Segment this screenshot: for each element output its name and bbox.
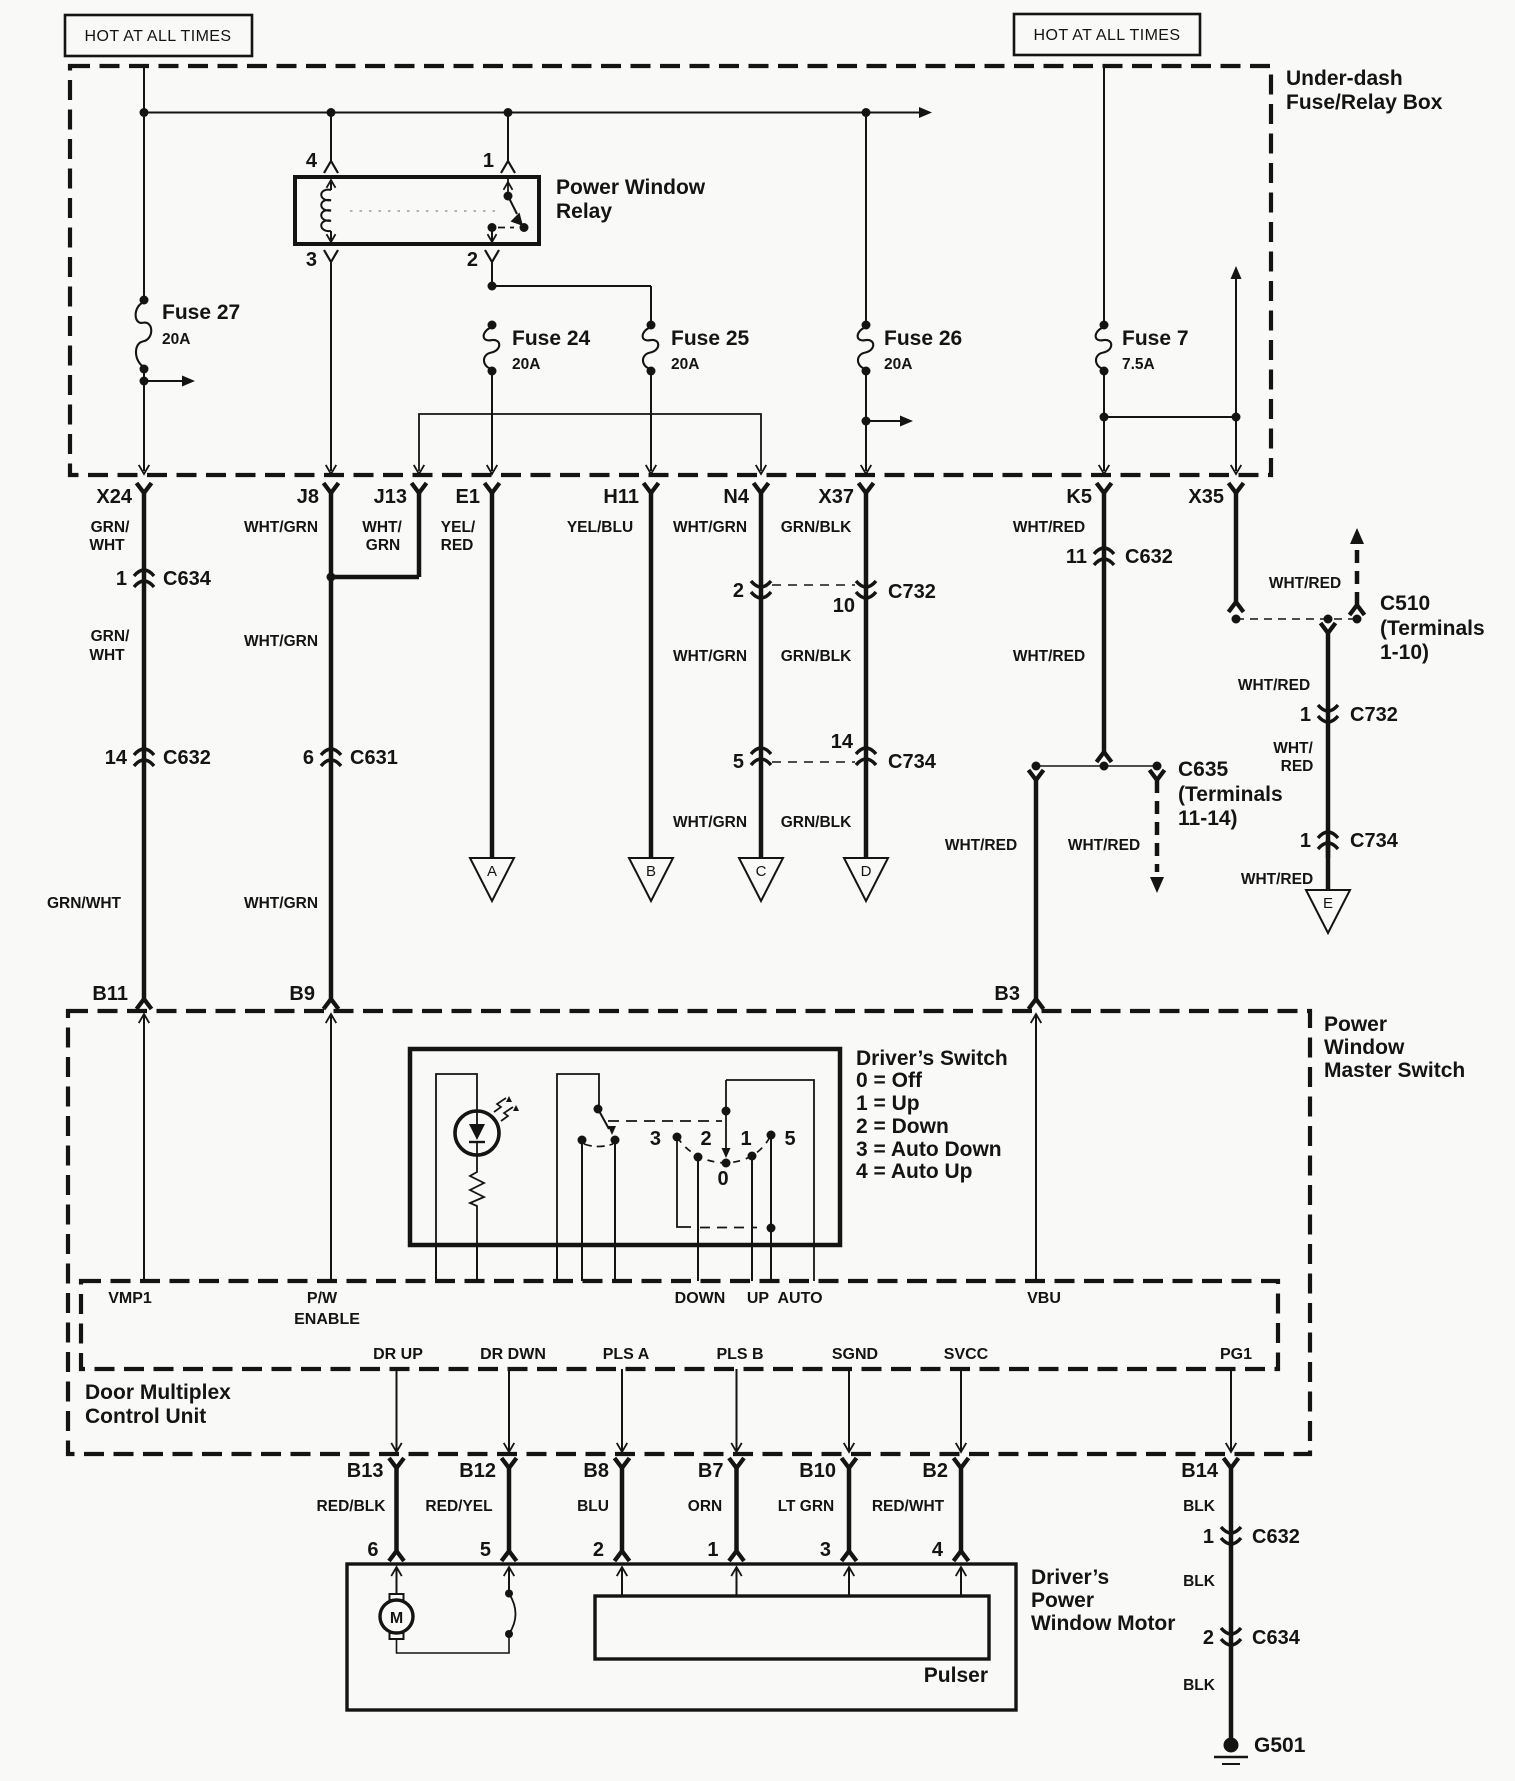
wire: pin 5 lead xyxy=(504,1567,515,1594)
label: motor pin 3 xyxy=(820,1539,831,1561)
svg-text:5: 5 xyxy=(480,1539,491,1561)
arrow: C635 continues down xyxy=(1150,877,1164,893)
svg-text:6: 6 xyxy=(303,747,314,769)
arrow into connector X24 xyxy=(139,465,150,474)
label: connector X24 xyxy=(96,486,132,508)
svg-text:B14: B14 xyxy=(1181,1460,1219,1482)
motor contact dots xyxy=(505,1590,513,1639)
label: SVCC xyxy=(944,1346,989,1363)
connector X24 (Y terminal) xyxy=(137,483,152,493)
svg-text:B7: B7 xyxy=(698,1460,724,1482)
junction: bus / fuse 26 xyxy=(862,108,871,117)
svg-text:Power: Power xyxy=(1031,1589,1094,1612)
svg-text:11: 11 xyxy=(1066,546,1087,568)
mechanical link (dashed) xyxy=(608,1120,722,1122)
svg-text:1: 1 xyxy=(1300,830,1311,852)
svg-text:GRN/WHT: GRN/WHT xyxy=(47,895,122,912)
svg-text:3: 3 xyxy=(820,1539,831,1561)
label: motor pin 2 xyxy=(593,1539,604,1561)
label: RED/BLK xyxy=(317,1498,387,1515)
label: G501 xyxy=(1254,1734,1306,1757)
arrow into connector J8 xyxy=(326,465,337,474)
motor pin 6 connector (inverted Y) xyxy=(389,1551,404,1561)
svg-text:1: 1 xyxy=(707,1539,718,1561)
arrow into connector X37 xyxy=(861,465,872,474)
label: connector N4 xyxy=(723,486,749,508)
svg-text:VMP1: VMP1 xyxy=(108,1290,152,1307)
wire: C510 stub (thick dashed, up) xyxy=(1355,548,1360,605)
label: Door Multiplex Control Unit xyxy=(85,1381,231,1428)
pin label 4 xyxy=(306,150,318,172)
connector C732 on branch (pin 1) xyxy=(1318,705,1338,722)
enable contact dots xyxy=(578,1136,620,1145)
svg-text:B12: B12 xyxy=(459,1460,496,1482)
connector B13 (Y terminal) xyxy=(389,1458,404,1468)
label: B3 xyxy=(994,983,1020,1005)
svg-text:WHT/RED: WHT/RED xyxy=(1238,677,1310,694)
svg-text:4: 4 xyxy=(306,150,318,172)
wire: C510 tie line (dotted) xyxy=(1236,618,1357,620)
svg-text:C734: C734 xyxy=(888,751,937,773)
connector J13 (Y terminal) xyxy=(412,483,427,493)
junction: C635 node xyxy=(1153,762,1162,771)
wire: enable switch loop xyxy=(557,1074,599,1245)
label: connector B8 xyxy=(583,1460,609,1482)
svg-text:WHT/GRN: WHT/GRN xyxy=(673,648,747,665)
motor pin 5 connector (inverted Y) xyxy=(502,1551,517,1561)
svg-text:2: 2 xyxy=(467,249,478,271)
svg-text:PLS A: PLS A xyxy=(603,1346,650,1363)
label: Fuse 24 xyxy=(512,327,591,350)
wire: X35 riser with arrow xyxy=(1231,266,1242,417)
LED symbol xyxy=(469,1111,485,1155)
label: connector B10 xyxy=(799,1460,836,1482)
label: 1 C734 (branch) xyxy=(1300,830,1399,852)
label: PLS B xyxy=(716,1346,763,1363)
svg-text:3 = Auto Down: 3 = Auto Down xyxy=(856,1138,1002,1161)
svg-text:0 = Off: 0 = Off xyxy=(856,1069,923,1092)
svg-text:SVCC: SVCC xyxy=(944,1346,989,1363)
wire GRN/WHT: X24 to B11 (thick) xyxy=(142,492,147,1000)
svg-text:Window Motor: Window Motor xyxy=(1031,1612,1175,1635)
svg-text:BLK: BLK xyxy=(1183,1498,1216,1515)
arrow: bus continues right xyxy=(919,107,932,118)
wire YEL/BLU: H11 to ground B (thick) xyxy=(649,492,654,858)
connector H11 (Y terminal) xyxy=(644,483,659,493)
label: 1 C632 (B14) xyxy=(1203,1526,1300,1548)
svg-text:2: 2 xyxy=(733,580,744,602)
svg-text:WHT/RED: WHT/RED xyxy=(1068,837,1140,854)
rocker actuator arrow xyxy=(722,1111,731,1158)
svg-text:RED/BLK: RED/BLK xyxy=(317,1498,387,1515)
connector X35 (Y terminal) xyxy=(1229,483,1244,493)
svg-text:14: 14 xyxy=(105,747,128,769)
label: Fuse 7 xyxy=(1122,327,1189,350)
label: GRN/ WHT (upper) xyxy=(89,519,130,554)
label: RED/YEL xyxy=(425,1498,492,1515)
rocker position 2 dot xyxy=(694,1153,703,1162)
svg-text:2: 2 xyxy=(700,1128,711,1150)
label: WHT/RED (K5 upper) xyxy=(1013,519,1085,536)
relay mechanical link (faint dotted) xyxy=(350,210,500,212)
connector triangle C xyxy=(739,858,783,901)
svg-text:ORN: ORN xyxy=(688,1498,722,1515)
label: Fuse 26 xyxy=(884,327,962,350)
wire: pulser lead pin 2 xyxy=(617,1567,628,1596)
junction: fuse 7 / X35 tie xyxy=(1100,413,1109,422)
label: Power Window Relay xyxy=(556,176,706,223)
label: WHT/ GRN (J13) xyxy=(362,519,402,554)
connector C634 in-line (pin 1) xyxy=(134,570,154,587)
wire: illumination drops xyxy=(436,1245,477,1281)
label: connector K5 xyxy=(1066,486,1092,508)
connector B9 (inverted Y) xyxy=(324,999,339,1009)
wire WHT/RED: B3 drop (thick) xyxy=(1034,780,1039,1000)
wire RED/YEL: B12 to motor pin 5 (thick) xyxy=(507,1467,512,1551)
connector N4 (Y terminal) xyxy=(754,483,769,493)
label: motor pin 5 xyxy=(480,1539,491,1561)
svg-text:C632: C632 xyxy=(1125,546,1173,568)
wire WHT/RED: X35 stub (thick) xyxy=(1234,492,1239,602)
label: LT GRN xyxy=(778,1498,835,1515)
label: C635 (Terminals 11-14) xyxy=(1178,758,1283,830)
label: connector B2 xyxy=(922,1460,948,1482)
connector B14 (Y terminal) xyxy=(1224,1458,1239,1468)
label: VMP1 xyxy=(108,1290,152,1307)
label: 1 C634 xyxy=(116,568,212,590)
label: B9 xyxy=(289,983,315,1005)
svg-text:5: 5 xyxy=(733,751,744,773)
svg-text:N4: N4 xyxy=(723,486,749,508)
svg-text:1: 1 xyxy=(116,568,127,590)
connector B3 branch (Y) xyxy=(1029,770,1044,780)
wire: motor return loop xyxy=(397,1636,510,1653)
relay contact: output terminal dot xyxy=(488,223,497,232)
label: WHT/RED (B3) xyxy=(945,837,1017,854)
junction: bus / X24 xyxy=(140,108,149,117)
arrow into connector K5 xyxy=(1099,465,1110,474)
wire: tie to X35 column xyxy=(1104,416,1236,418)
svg-text:H11: H11 xyxy=(603,486,639,508)
auto link (dashed) xyxy=(700,1227,757,1229)
label: GRN/BLK (X37 middle) xyxy=(781,648,852,665)
driver's switch box xyxy=(410,1049,840,1245)
label: VBU xyxy=(1027,1290,1061,1307)
label: GRN/BLK (X37 lower) xyxy=(781,814,852,831)
wire: B9 into switch (P/W ENABLE) xyxy=(326,1014,337,1281)
label: BLK (upper) xyxy=(1183,1498,1216,1515)
label: WHT/GRN (upper) xyxy=(244,519,318,536)
svg-text:RED/WHT: RED/WHT xyxy=(872,1498,945,1515)
rocker common dot xyxy=(722,1107,731,1116)
svg-text:LT GRN: LT GRN xyxy=(778,1498,835,1515)
svg-text:SGND: SGND xyxy=(832,1346,878,1363)
relay contact arm (switch blade) xyxy=(508,196,523,226)
wire: pulser lead pin 4 xyxy=(956,1567,967,1596)
svg-text:20A: 20A xyxy=(884,356,912,373)
svg-text:14: 14 xyxy=(831,731,854,753)
label: WHT/GRN (N4 lower) xyxy=(673,814,747,831)
relay contact: common lead xyxy=(504,179,513,196)
label: Under-dash Fuse/Relay Box xyxy=(1286,67,1443,114)
pin 4 connector (inverted Y) xyxy=(324,161,338,173)
rocker position 3 dot xyxy=(673,1133,682,1142)
svg-text:Under-dash: Under-dash xyxy=(1286,67,1403,90)
label: 20A (fuse 27) xyxy=(162,331,190,348)
relay coil lead + arrow (bottom) xyxy=(327,231,336,242)
wire: position 3 drop + link xyxy=(677,1137,691,1227)
rocker position 0 dot xyxy=(722,1159,731,1168)
junction: branch feed xyxy=(140,377,149,386)
wire BLK: B14 down (thick) xyxy=(1229,1467,1234,1741)
label: 7.5A (fuse 7) xyxy=(1122,356,1155,373)
label: Pulser xyxy=(924,1664,988,1687)
wire: PLS A output drop xyxy=(617,1369,628,1452)
svg-text:Fuse 7: Fuse 7 xyxy=(1122,327,1189,350)
svg-text:Control Unit: Control Unit xyxy=(85,1405,206,1428)
wire: rocker feed loop xyxy=(726,1080,814,1281)
label: 20A (fuse 25) xyxy=(671,356,699,373)
label: motor pin 6 xyxy=(367,1539,378,1561)
label: PG1 xyxy=(1220,1346,1252,1363)
connector K5 end (inverted Y) xyxy=(1097,752,1112,762)
label: WHT/ RED (branch mid) xyxy=(1273,740,1313,775)
svg-text:J13: J13 xyxy=(374,486,407,508)
label: BLK (middle) xyxy=(1183,1573,1216,1590)
pin label 1 xyxy=(483,150,494,172)
label: WHT/RED (C635) xyxy=(1068,837,1140,854)
wire YEL/RED: E1 to ground A (thick) xyxy=(490,492,495,858)
connector triangle A xyxy=(470,858,514,901)
enable switch pivot dot xyxy=(594,1105,603,1114)
wire: SVCC output drop xyxy=(956,1369,967,1452)
svg-text:GRN/: GRN/ xyxy=(91,519,130,536)
wire: PLS B output drop xyxy=(731,1369,742,1452)
svg-text:WHT/GRN: WHT/GRN xyxy=(673,814,747,831)
wire: rocker common xyxy=(725,1080,727,1111)
connector B10 (Y terminal) xyxy=(842,1458,857,1468)
wire WHT/GRN: J8 to B9 (thick) xyxy=(329,492,334,1000)
wire WHT/RED: K5 column (thick) xyxy=(1102,492,1107,752)
label: WHT/GRN (lower) xyxy=(244,895,318,912)
svg-text:C510: C510 xyxy=(1380,592,1430,615)
label: UP xyxy=(747,1290,770,1307)
svg-text:WHT/RED: WHT/RED xyxy=(1013,648,1085,665)
fuse F25 element xyxy=(643,321,659,376)
svg-text:1: 1 xyxy=(740,1128,751,1150)
power feed label box (right): HOT AT ALL TIMES xyxy=(1014,14,1200,55)
svg-text:D: D xyxy=(861,863,872,880)
junction: C510 branch node xyxy=(1324,615,1333,624)
label: WHT/RED (C510) xyxy=(1269,575,1341,592)
label: connector E1 xyxy=(456,486,480,508)
connector C732 on N4 (pin 2) xyxy=(751,581,771,598)
label: WHT/GRN (middle) xyxy=(244,633,318,650)
connector C632 on K5 (pin 11) xyxy=(1094,548,1114,565)
wire: bus to relay pin 1 xyxy=(507,113,509,162)
wire: battery feed down to bus (X24 column) xyxy=(143,66,145,113)
rocker position 5 dot xyxy=(767,1131,776,1140)
svg-text:PLS B: PLS B xyxy=(716,1346,763,1363)
svg-text:K5: K5 xyxy=(1066,486,1092,508)
label: PLS A xyxy=(603,1346,650,1363)
connector K5 (Y terminal) xyxy=(1097,483,1112,493)
motor pin 4 connector (inverted Y) xyxy=(954,1551,969,1561)
wire: bus to relay pin 4 xyxy=(330,113,332,162)
svg-text:(Terminals: (Terminals xyxy=(1380,617,1485,640)
wire WHT/RED: branch to C732 (thick) xyxy=(1326,633,1331,858)
wire: enable contact drops xyxy=(557,1140,615,1281)
arrow into connector E1 xyxy=(487,465,498,474)
label: DOWN xyxy=(675,1290,726,1307)
svg-text:E1: E1 xyxy=(456,486,480,508)
label: WHT/GRN (N4 upper) xyxy=(673,519,747,536)
svg-text:1: 1 xyxy=(1203,1526,1214,1548)
connector B7 (Y terminal) xyxy=(729,1458,744,1468)
svg-text:DR UP: DR UP xyxy=(373,1346,423,1363)
label: motor pin 1 xyxy=(707,1539,718,1561)
svg-text:(Terminals: (Terminals xyxy=(1178,783,1283,806)
svg-text:X37: X37 xyxy=(818,486,854,508)
svg-text:Window: Window xyxy=(1324,1036,1405,1059)
svg-text:BLK: BLK xyxy=(1183,1677,1216,1694)
wire: fuse 25 output to H11 xyxy=(650,371,652,471)
label: GRN/ WHT (middle) xyxy=(89,628,130,664)
svg-text:HOT AT ALL TIMES: HOT AT ALL TIMES xyxy=(85,28,232,45)
junction: J8 / J13 tie xyxy=(327,573,336,582)
label: 1 C732 (branch) xyxy=(1300,704,1398,726)
svg-text:3: 3 xyxy=(650,1128,661,1150)
label: WHT/GRN (N4 middle) xyxy=(673,648,747,665)
junction: bus / relay pin 1 xyxy=(504,108,513,117)
svg-text:WHT/GRN: WHT/GRN xyxy=(244,633,318,650)
power feed label box (left): HOT AT ALL TIMES xyxy=(65,15,252,56)
svg-text:GRN/: GRN/ xyxy=(91,628,130,645)
label: SGND xyxy=(832,1346,878,1363)
connector B3 (inverted Y) xyxy=(1029,999,1044,1009)
wire: relay pin 2 down xyxy=(491,262,493,286)
enable switch blade xyxy=(598,1109,616,1135)
link line C732 (dotted) xyxy=(772,584,855,586)
motor M1 (window motor) xyxy=(380,1600,413,1633)
label: 20A (fuse 24) xyxy=(512,356,540,373)
wire: branch to triangle E xyxy=(1326,840,1331,890)
label: connector B14 xyxy=(1181,1460,1219,1482)
svg-text:BLU: BLU xyxy=(577,1498,609,1515)
wire: illumination loop xyxy=(436,1074,477,1245)
connector X37 (Y terminal) xyxy=(859,483,874,493)
arrow into connector X35 xyxy=(1231,465,1242,474)
relay U1: Power Window Relay box xyxy=(295,177,539,244)
label: connector X37 xyxy=(818,486,854,508)
link line C734 (dotted) xyxy=(772,761,855,763)
wire ORN: B7 to motor pin 1 (thick) xyxy=(734,1467,739,1551)
connector C510 up branch (Y up) xyxy=(1350,605,1365,615)
svg-text:DR DWN: DR DWN xyxy=(480,1346,546,1363)
arrow into connector N4 xyxy=(756,465,767,474)
LED light arrows xyxy=(494,1096,519,1121)
svg-text:C634: C634 xyxy=(1252,1627,1301,1649)
svg-text:Fuse 26: Fuse 26 xyxy=(884,327,962,350)
svg-text:1 = Up: 1 = Up xyxy=(856,1092,920,1115)
relay coil xyxy=(321,190,331,231)
wire LT GRN: B10 to motor pin 3 (thick) xyxy=(847,1467,852,1551)
svg-text:1: 1 xyxy=(1300,704,1311,726)
svg-text:B2: B2 xyxy=(922,1460,948,1482)
label: connector J8 xyxy=(297,486,319,508)
wire RED/WHT: B2 to motor pin 4 (thick) xyxy=(959,1467,964,1551)
pin 2 connector (Y) xyxy=(467,249,499,271)
svg-text:10: 10 xyxy=(833,595,855,617)
svg-text:E: E xyxy=(1323,895,1333,912)
svg-text:2: 2 xyxy=(1203,1627,1214,1649)
svg-text:BLK: BLK xyxy=(1183,1573,1216,1590)
connector C734 on branch (pin 1) xyxy=(1318,832,1338,849)
wire: rocker drops xyxy=(698,1135,771,1281)
label: 1 xyxy=(740,1128,751,1150)
label: BLK (lower) xyxy=(1183,1677,1216,1694)
label: YEL/ RED xyxy=(441,519,476,554)
label: connector B7 xyxy=(698,1460,724,1482)
svg-text:20A: 20A xyxy=(162,331,190,348)
svg-text:4: 4 xyxy=(932,1539,944,1561)
svg-text:X24: X24 xyxy=(96,486,132,508)
wire: relay pin 3 to connector J8 xyxy=(330,262,332,471)
label: 5 (C734 N4) xyxy=(733,751,744,773)
enable contact dash xyxy=(584,1144,613,1147)
svg-text:YEL/BLU: YEL/BLU xyxy=(567,519,633,536)
wire: pulser lead pin 1 xyxy=(731,1567,742,1596)
svg-text:Relay: Relay xyxy=(556,200,612,223)
connector C631 in-line (pin 6) xyxy=(321,749,341,766)
junction: X35 / C510 node xyxy=(1232,615,1241,624)
resistor (illumination) xyxy=(470,1155,484,1245)
label: 14 C632 xyxy=(105,747,211,769)
svg-text:WHT: WHT xyxy=(89,647,125,664)
svg-text:G501: G501 xyxy=(1254,1734,1306,1757)
wire BLU: B8 to motor pin 2 (thick) xyxy=(620,1467,625,1551)
connector C635 branch (Y) xyxy=(1150,770,1165,780)
svg-text:X35: X35 xyxy=(1188,486,1224,508)
wire: fuse 27 output xyxy=(143,369,145,471)
svg-text:VBU: VBU xyxy=(1027,1290,1061,1307)
svg-text:5: 5 xyxy=(784,1128,795,1150)
motor pin 1 connector (inverted Y) xyxy=(729,1551,744,1561)
fuse F24 element xyxy=(484,321,500,376)
label: AUTO xyxy=(777,1290,822,1307)
svg-text:Driver’s: Driver’s xyxy=(1031,1566,1109,1589)
connector B11 (inverted Y) xyxy=(137,999,152,1009)
svg-text:GRN/BLK: GRN/BLK xyxy=(781,814,852,831)
wire: fuse 24 output to E1 xyxy=(491,371,493,471)
svg-text:C632: C632 xyxy=(163,747,211,769)
label: connector B13 xyxy=(347,1460,384,1482)
label: 10 C732 xyxy=(833,581,936,617)
svg-text:2 = Down: 2 = Down xyxy=(856,1115,949,1138)
svg-text:Fuse 27: Fuse 27 xyxy=(162,301,240,324)
connector triangle E xyxy=(1306,890,1350,933)
connector E1 (Y terminal) xyxy=(485,483,500,493)
wire: PG1 output drop xyxy=(1226,1369,1237,1452)
motor pin 3 connector (inverted Y) xyxy=(842,1551,857,1561)
svg-text:WHT/GRN: WHT/GRN xyxy=(244,519,318,536)
svg-text:20A: 20A xyxy=(512,356,540,373)
wire: J13-N4 tie line xyxy=(419,414,761,471)
arrow: fuse 26 branch feed xyxy=(866,416,913,427)
label: 2 xyxy=(700,1128,711,1150)
connector C734 on X37 (pin 14) xyxy=(856,748,876,765)
wire: fuse 26 output to X37 xyxy=(865,371,867,471)
